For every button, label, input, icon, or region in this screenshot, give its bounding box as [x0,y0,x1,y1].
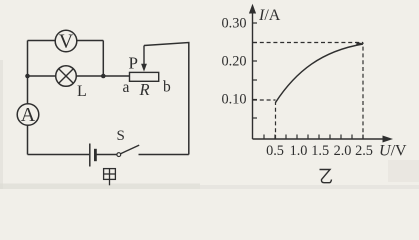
svg-text:V: V [59,31,74,53]
rheostat slider arrow P [141,46,147,72]
curve end arrow tip [356,42,364,46]
svg-text:P: P [129,54,138,73]
lamp L [56,66,77,87]
wire: main lamp line [28,75,130,77]
svg-text:I/A: I/A [258,7,281,24]
scan background tint [0,0,419,189]
wire: battery to switch [97,154,117,156]
svg-text:L: L [77,83,87,100]
svg-text:1.5: 1.5 [311,143,329,159]
junction node right [101,74,106,79]
dashed guide U=2.5 [362,43,364,140]
svg-text:b: b [163,79,171,96]
y-axis ticks [253,23,258,118]
svg-text:0.20: 0.20 [221,54,246,70]
label yi (Chinese) [320,170,332,183]
wire: slider feed to right vertical [144,43,189,155]
dashed guide U=0.5 [275,102,277,139]
svg-text:a: a [123,79,130,96]
svg-text:S: S [117,128,125,144]
dashed guide I=0.10 [253,99,276,101]
y-axis [249,4,256,139]
battery [90,144,96,167]
svg-text:A: A [21,104,36,126]
svg-text:1.0: 1.0 [290,143,308,159]
wire: voltmeter branch top [28,40,104,42]
svg-text:2.5: 2.5 [355,143,373,159]
scan artifacts (faint) [0,60,419,189]
wire: bottom line [28,154,90,156]
voltmeter V [55,30,77,52]
dashed guide I=0.25 [253,42,363,44]
switch S [117,145,139,156]
svg-text:0.30: 0.30 [221,16,246,32]
rheostat R body [130,72,159,81]
x-axis ticks [264,135,363,140]
wire: left vertical (V-branch corner down to bottom-left corner) [27,41,29,155]
ammeter A [17,104,39,126]
svg-text:R: R [139,80,150,99]
label jia (Chinese) [104,169,116,186]
svg-text:U/V: U/V [379,143,407,160]
svg-text:0.10: 0.10 [221,92,246,108]
x-axis [253,136,394,143]
svg-text:2.0: 2.0 [334,143,352,159]
svg-text:0.5: 0.5 [266,143,284,159]
I-U curve [276,44,364,103]
wire: voltmeter branch right stub [102,41,104,77]
junction node left [25,74,30,79]
wire: switch to bottom-right corner [139,154,189,156]
